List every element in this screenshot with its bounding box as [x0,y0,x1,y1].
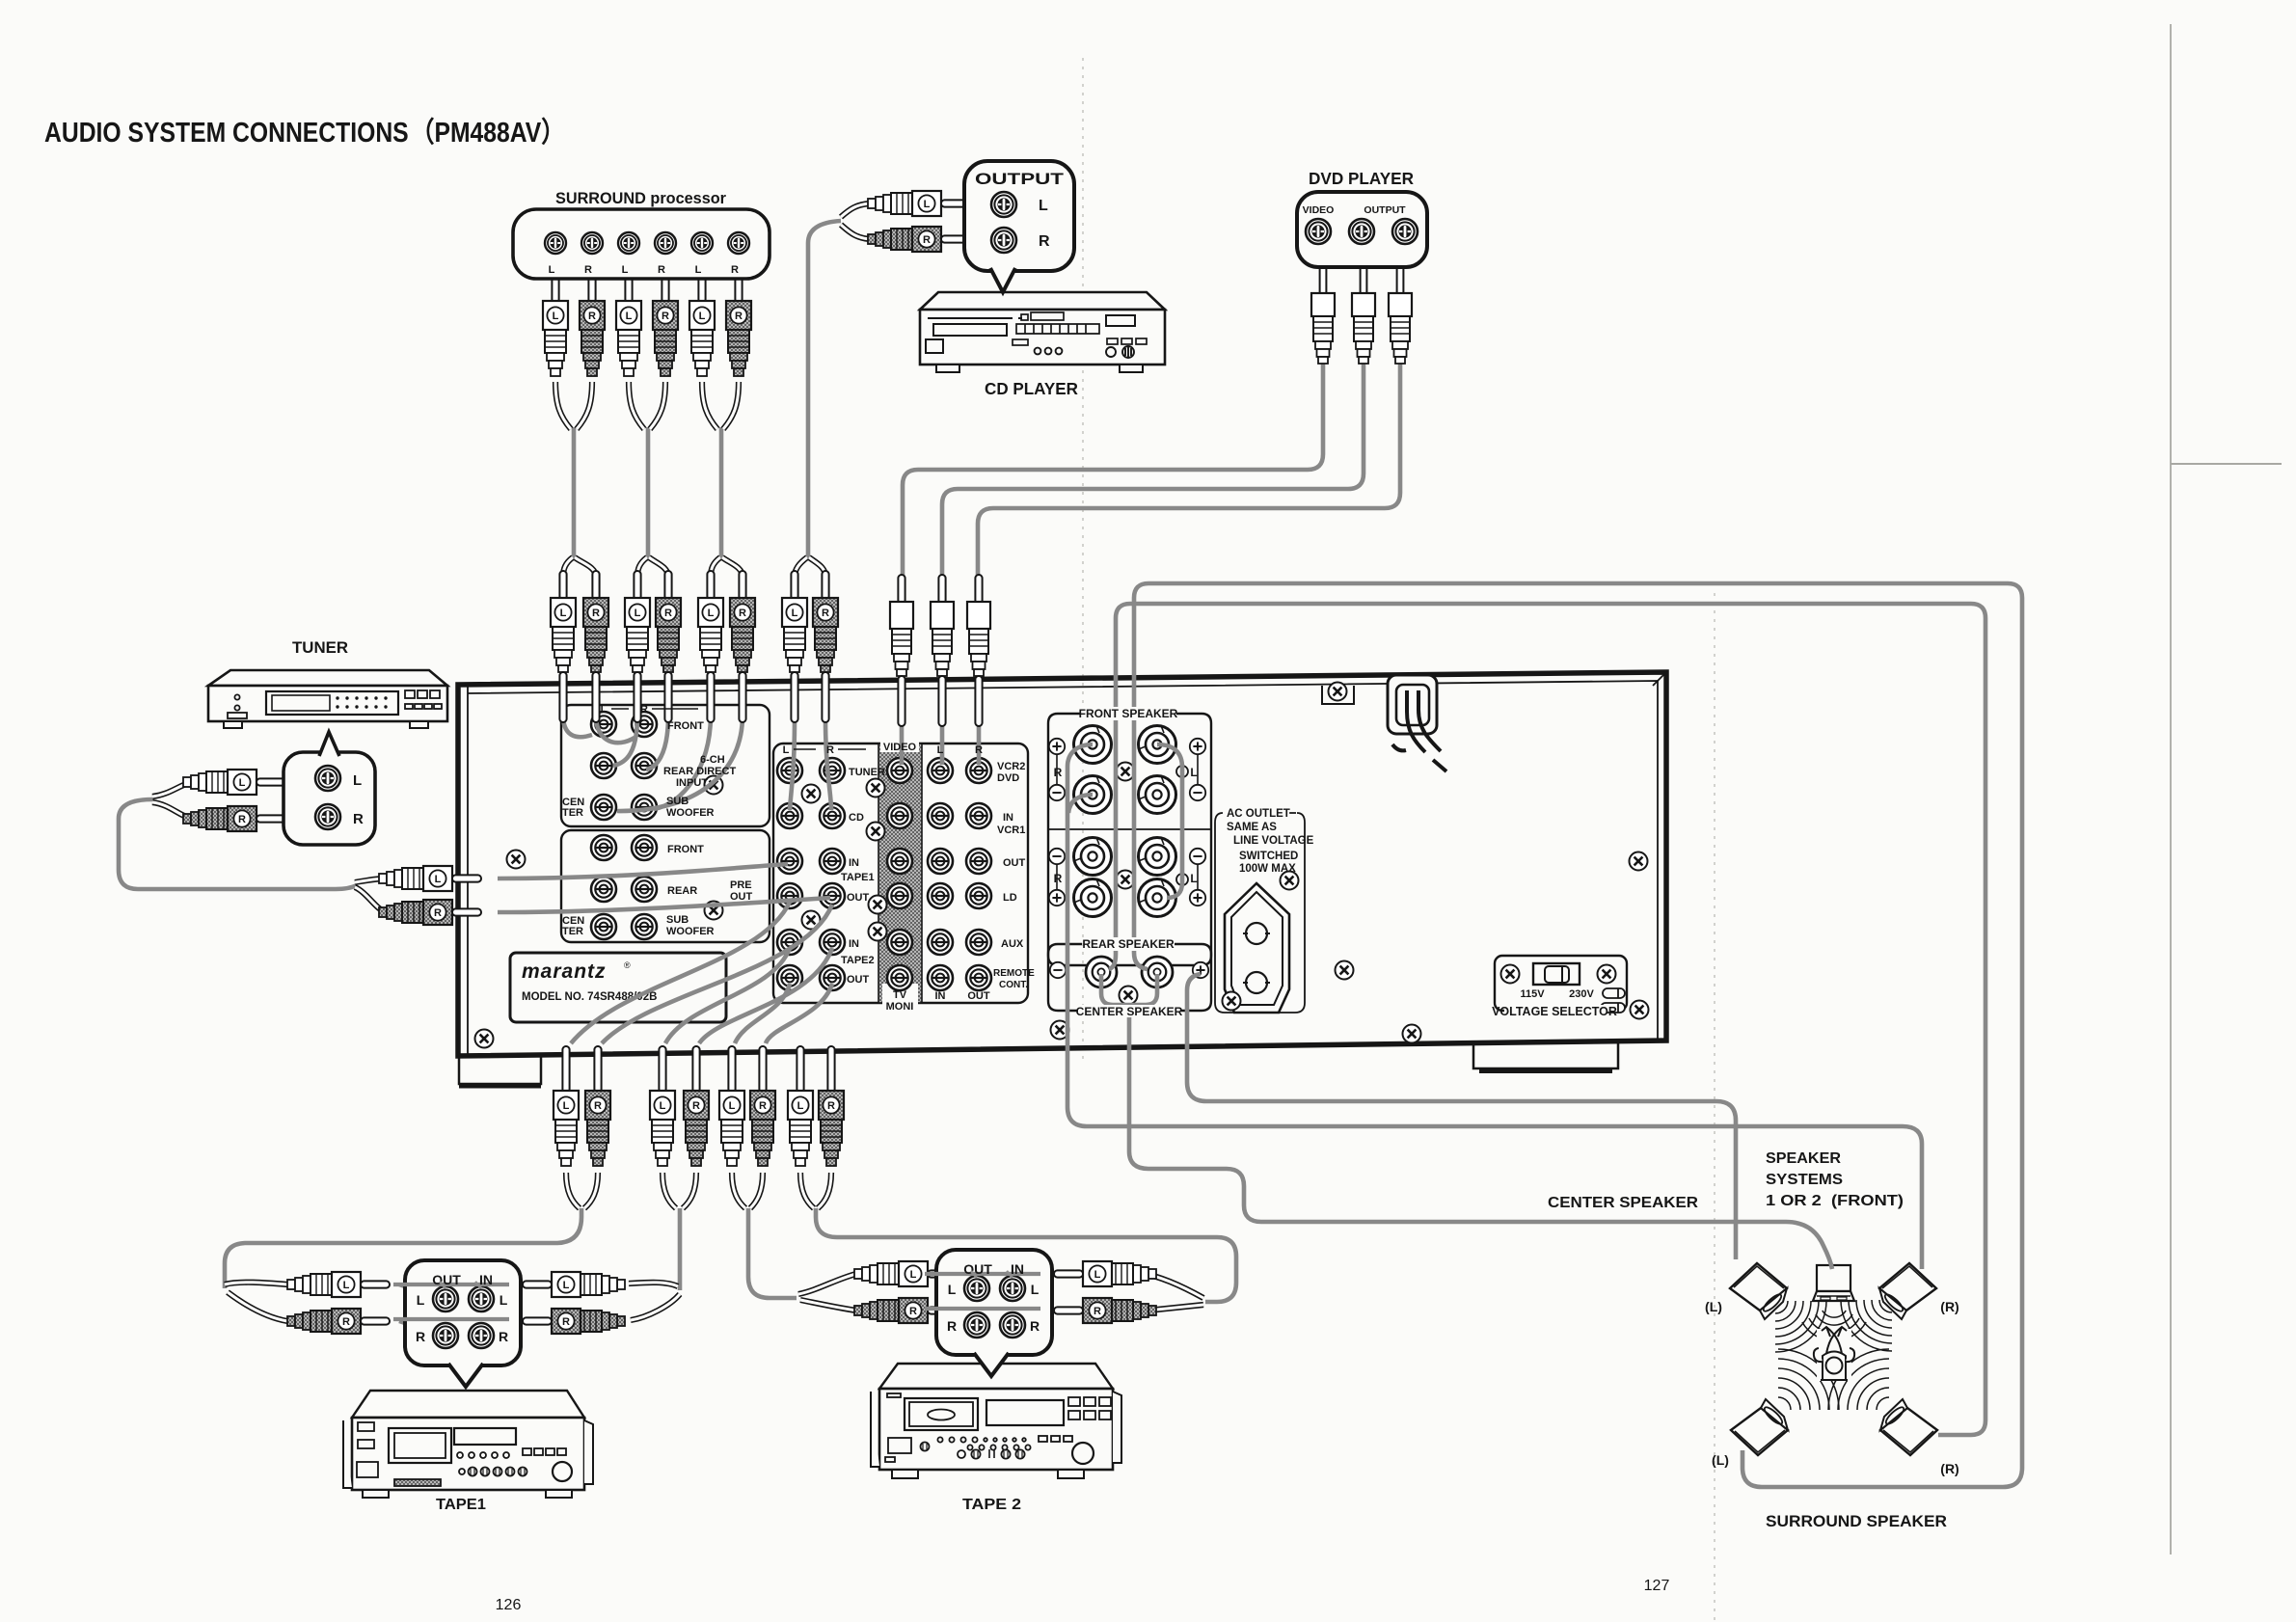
svg-text:L: L [708,608,715,619]
svg-text:L: L [549,264,555,276]
wire cd balloon pin L [970,202,992,206]
svg-text:R: R [759,1100,767,1112]
tape2 balloon labels [947,1261,1040,1334]
6ch input plugs above receiver [551,571,576,722]
svg-text:SURROUND SPEAKER: SURROUND SPEAKER [1766,1513,1947,1530]
svg-text:TAPE1: TAPE1 [841,872,875,883]
audio jacks TAPE1 OUT row [777,883,802,908]
svg-text:OUT: OUT [963,1261,992,1277]
svg-text:L: L [626,311,633,322]
svg-text:L: L [783,744,790,756]
wire 6ch rear L [613,716,637,766]
svg-text:marantz: marantz [522,960,607,983]
tape2 balloon [936,1250,1052,1376]
video audio L column jacks [928,758,953,783]
audio input jack block [773,743,1028,1003]
svg-text:L: L [792,608,798,619]
svg-text:L: L [343,1280,350,1291]
svg-text:R: R [827,1100,835,1112]
wire front speaker riser inner to surround R speaker [1109,604,1985,1435]
wire pairD below receiver to TAPE2 right [816,1208,1236,1302]
svg-text:6-CH: 6-CH [700,754,725,766]
svg-text:R: R [562,1316,570,1328]
svg-text:L: L [239,777,246,789]
svg-text:127: 127 [1644,1578,1670,1594]
video audio R column jacks [966,758,991,783]
svg-text:R: R [731,264,739,276]
wire center speaker run [1129,1007,1832,1269]
svg-text:L: L [500,1292,508,1308]
svg-text:OUT: OUT [847,892,870,904]
svg-text:R: R [584,264,592,276]
panel screws [507,851,526,869]
svg-text:R: R [909,1306,917,1317]
svg-text:WOOFER: WOOFER [666,807,715,819]
wire surround pair1 trunk [572,427,577,559]
svg-text:CD PLAYER: CD PLAYER [985,379,1078,398]
svg-text:R: R [434,907,442,919]
AC outlet socket [1225,883,1289,1013]
tape2 deck out plugs [854,1261,957,1286]
svg-text:R: R [664,608,672,619]
wire DVD R pin [977,716,982,765]
voltage selector box [1495,956,1627,1011]
sound wave arcs center channel [1802,1311,1866,1340]
svg-text:OUT: OUT [1003,857,1026,869]
svg-text:L: L [417,1292,425,1308]
svg-text:L: L [910,1269,917,1281]
svg-text:(R): (R) [1940,1461,1958,1476]
polarity marks rear speaker [1050,962,1066,978]
wire hook terminal minus [1068,795,1093,813]
svg-text:L: L [797,1100,804,1112]
wire tape1 balloon pin L out [399,1284,437,1297]
tape plugs below receiver [554,1046,579,1166]
svg-text:115V: 115V [1520,988,1545,1000]
tape1 jack pointer ticks [440,1282,481,1288]
panel 6ch labels [562,704,753,937]
wire 6ch front L [563,716,592,737]
tape1 balloon [405,1260,521,1387]
TAPE1 front details [357,1422,572,1486]
svg-text:LD: LD [1003,892,1017,904]
svg-text:INPUT: INPUT [676,777,708,789]
svg-text:L: L [601,704,608,716]
svg-text:R: R [353,811,364,827]
svg-text:®: ® [624,960,631,970]
wire tuner L into panel [498,864,788,879]
svg-text:REAR: REAR [667,885,697,897]
svg-text:CD: CD [849,812,864,824]
svg-text:L: L [695,264,702,276]
tape2 balloon jacks [964,1276,989,1301]
svg-text:IN: IN [849,938,859,950]
scan artifact vertical line right [2170,24,2172,1554]
wire DVD audio R [978,361,1400,579]
svg-text:VIDEO: VIDEO [1303,204,1335,216]
svg-text:VCR2: VCR2 [997,761,1025,772]
surround processor jack box [513,209,770,279]
svg-text:SYSTEMS: SYSTEMS [1766,1172,1843,1188]
svg-text:FRONT: FRONT [667,844,704,855]
wire center speaker U jumper [1101,974,1157,1005]
sound wave arcs surround right [1828,1349,1889,1410]
svg-text:R: R [1054,766,1063,779]
wire tape pair D inside panel [800,984,802,1043]
audio jacks TUNER row [777,758,802,783]
tuner output plugs [183,770,285,795]
wire 6ch front R [596,716,635,743]
svg-text:OUT: OUT [847,974,870,986]
svg-text:(L): (L) [1712,1452,1729,1468]
wire tape2 balloon pin L out [966,1274,970,1286]
wire tape2 balloon pin L in [1018,1274,1039,1286]
svg-text:L: L [1039,198,1048,214]
wire DVD L pin [940,716,945,765]
CD output balloon [964,161,1074,292]
tuner display dots [336,696,387,708]
svg-text:AUDIO SYSTEM CONNECTIONS （PM48: AUDIO SYSTEM CONNECTIONS （PM488AV） [44,117,565,149]
svg-text:R: R [1039,233,1050,250]
audio jacks TAPE2 IN row [777,930,802,955]
svg-text:L: L [1031,1282,1040,1297]
wire tape2 balloon pin R out [966,1311,970,1323]
svg-text:R: R [739,608,746,619]
svg-text:MONI: MONI [886,1001,914,1013]
CD player knobs [1035,346,1134,358]
svg-text:PRE: PRE [730,879,752,891]
svg-text:CENTER SPEAKER: CENTER SPEAKER [1548,1195,1698,1211]
wire tuner R into panel [498,898,830,912]
wire tuner balloon pin L [281,779,316,784]
CD player device [920,292,1165,372]
surround left speaker cube [1731,1399,1788,1455]
svg-text:L: L [729,1100,736,1112]
audio jacks TAPE1 IN row [777,849,802,874]
marantz model label [510,953,726,1022]
DVD plugs above receiver [890,575,913,726]
wire tape1 balloon pin L in [488,1284,508,1297]
wire 6ch center [617,716,743,811]
svg-text:IN: IN [1011,1261,1024,1277]
plug letters [238,199,1101,1328]
6-ch direct input jack block [561,705,770,826]
video column jacks [887,758,912,783]
rear speaker block [1048,944,1211,1011]
svg-text:FRONT SPEAKER: FRONT SPEAKER [1079,707,1178,720]
wire rear speaker to front L speaker [1187,974,1736,1259]
svg-text:OUT: OUT [967,990,990,1002]
svg-text:AC OUTLET: AC OUTLET [1227,808,1290,820]
surround right speaker cube [1880,1399,1937,1455]
svg-text:R: R [662,311,669,322]
surround processor jacks [545,232,566,254]
screw tab on top edge [1322,683,1354,705]
TAPE1 deck device [343,1391,593,1498]
svg-text:R: R [1094,1306,1101,1317]
svg-text:TER: TER [562,807,583,819]
wire surround pair3 trunk [719,427,724,559]
svg-text:(R): (R) [1940,1299,1958,1314]
wire pairC below receiver to TAPE2 left [748,1208,797,1298]
svg-text:R: R [826,744,834,756]
voltage selector switch [1533,963,1580,985]
svg-text:L: L [948,1282,957,1297]
svg-text:L: L [937,744,944,756]
svg-text:R: R [1030,1318,1040,1334]
wire tape1 balloon pin R out [399,1321,437,1334]
scan artifact tick [2171,463,2282,465]
wire CD output trunk [808,221,841,559]
svg-text:AUX: AUX [1001,938,1024,950]
tuner device [208,670,447,728]
wire tape2 balloon pin R in [1018,1311,1039,1323]
svg-text:OUT: OUT [730,891,753,903]
wire cd balloon pin R [973,237,992,242]
tuner plugs into receiver [379,866,481,891]
tuner front details [228,690,442,718]
wire tuner balloon pin R [281,816,316,821]
svg-text:R: R [735,311,743,322]
tape1 balloon labels [416,1272,508,1344]
svg-text:L: L [1190,766,1197,779]
tape2 deck in plugs [1054,1261,1156,1286]
svg-text:OUTPUT: OUTPUT [975,171,1064,188]
wire tape1 balloon pin R in [488,1321,508,1334]
wire tape2 in trunk [665,948,790,1043]
svg-text:VOLTAGE SELECTOR: VOLTAGE SELECTOR [1492,1005,1617,1018]
wire 6ch rear R [646,716,668,770]
svg-text:SWITCHED: SWITCHED [1239,851,1298,862]
audio jacks CD row [777,803,802,828]
speaker terminal block labels [1054,707,1198,1018]
svg-text:R: R [1054,872,1063,885]
svg-text:SURROUND processor: SURROUND processor [555,190,727,207]
front speaker block [1048,714,1211,965]
wire bands through tape2 balloon [925,1274,1040,1309]
svg-text:R: R [416,1329,425,1344]
wire tape2 out trunk [735,984,790,1043]
CD input plugs above receiver [782,571,807,722]
svg-text:L: L [699,311,706,322]
voltage selector screws [1501,965,1520,984]
front speaker terminals system 2 [1074,838,1112,876]
pre out jack block [561,830,770,942]
svg-text:TAPE1: TAPE1 [436,1497,486,1513]
svg-text:R: R [692,1100,700,1112]
svg-text:CENTER SPEAKER: CENTER SPEAKER [1076,1005,1183,1018]
audio jacks TAPE2 OUT row [777,965,802,990]
CD player front details [928,312,1147,345]
receiver rear panel outline [458,672,1666,1056]
video jack strip (shaded) [878,743,922,1003]
svg-text:CONT.: CONT. [999,980,1028,990]
DVD jacks [1306,219,1331,244]
TAPE2 deck device [871,1364,1121,1478]
svg-text:OUT: OUT [432,1272,461,1287]
svg-text:L: L [1190,872,1197,885]
wire rear speaker to front R speaker [1067,744,1922,1269]
svg-text:126: 126 [496,1597,522,1613]
CD output plugs [868,191,970,216]
DVD plugs under DVD player [1311,251,1335,364]
wire surround pair2 trunk [646,427,651,559]
svg-text:230V: 230V [1569,988,1594,1000]
svg-text:L: L [353,772,362,789]
tape1 deck in plugs [523,1272,625,1297]
svg-text:SAME AS: SAME AS [1227,822,1277,833]
speaker wire tabs [1601,988,1625,1013]
svg-text:LINE VOLTAGE: LINE VOLTAGE [1233,835,1314,847]
svg-text:R: R [499,1329,508,1344]
pre out jacks row CENTER/SUB [591,914,616,939]
front speaker terminals system 1 [1074,726,1112,764]
voltage selector labels [1492,988,1617,1018]
wire DVD video [903,361,1323,579]
svg-text:L: L [435,874,442,885]
svg-text:R: R [640,704,648,716]
svg-text:(L): (L) [1705,1299,1722,1314]
svg-text:DVD: DVD [997,772,1019,784]
TAPE2 front details [885,1393,1111,1464]
listener figure [1814,1327,1854,1381]
wire pairA below receiver to TAPE1 left [225,1208,581,1288]
svg-text:TAPE 2: TAPE 2 [962,1497,1021,1513]
AC power cord [1392,690,1446,771]
svg-text:TAPE2: TAPE2 [841,955,875,966]
svg-text:R: R [923,234,931,246]
small holes front speaker block [1176,766,1188,777]
svg-text:L: L [563,1100,570,1112]
front right speaker cube [1879,1263,1936,1319]
svg-text:SUB: SUB [666,914,689,926]
svg-text:R: R [975,744,983,756]
wire bands through tape1 balloon [393,1284,509,1319]
AC outlet dashed box [1215,813,1305,1013]
center speaker box [1813,1265,1854,1301]
front left speaker cube [1730,1263,1787,1319]
white cable pair tubes [152,203,1203,1321]
wire front speaker riser outer to surround L speaker [1134,583,2022,1487]
wire tuner trunk [119,799,357,889]
wire CD R into jack [825,718,831,810]
wire 6ch sub [654,716,711,809]
receiver left foot [459,1055,541,1086]
svg-text:L: L [622,264,629,276]
wire CD L into jack [790,718,795,810]
scan fold line right page [1714,593,1715,1622]
svg-text:IN: IN [1003,812,1013,824]
svg-text:R: R [822,608,829,619]
svg-text:SPEAKER: SPEAKER [1766,1150,1841,1167]
svg-text:IN: IN [935,990,946,1002]
wire DVD audio L [942,361,1364,579]
svg-text:REAR DIRECT: REAR DIRECT [663,766,736,777]
svg-text:R: R [594,1100,602,1112]
sound wave arcs surround left [1778,1349,1839,1410]
svg-text:R: R [238,814,246,825]
panel audio block labels [783,742,1035,1013]
svg-text:100W MAX: 100W MAX [1239,863,1296,875]
svg-text:L: L [1094,1269,1101,1281]
svg-text:REMOTE: REMOTE [993,968,1035,979]
polarity marks front speaker [1049,739,1065,754]
svg-text:VCR1: VCR1 [997,825,1025,836]
wire pairB below receiver to TAPE1 right [678,1208,683,1290]
svg-text:L: L [924,199,931,210]
svg-text:R: R [588,311,596,322]
tape2 jack pointer ticks [971,1271,1013,1278]
sound wave arcs front left [1775,1301,1826,1352]
svg-text:TUNER: TUNER [292,639,348,657]
svg-text:TER: TER [562,926,583,937]
tape1 deck out plugs [287,1272,390,1297]
scan fold line center-left page [1082,58,1084,1061]
svg-text:R: R [592,608,600,619]
svg-text:R: R [342,1316,350,1328]
svg-text:WOOFER: WOOFER [666,926,715,937]
6-ch block jacks row CENTER/SUB [591,795,616,820]
6-ch block jacks row FRONT [591,712,616,737]
surround processor plugs L/R x3 [543,257,568,376]
svg-text:R: R [947,1318,957,1334]
6-ch block jacks row REAR [591,753,616,778]
svg-text:SUB: SUB [666,796,689,807]
svg-text:L: L [660,1100,666,1112]
svg-text:FRONT: FRONT [667,720,704,732]
svg-text:IN: IN [479,1272,493,1287]
svg-text:TV: TV [893,989,907,1001]
CD output jacks [991,192,1016,217]
AC outlet labels [1227,808,1314,875]
pre out jacks row REAR [591,877,616,902]
svg-text:L: L [563,1280,570,1291]
svg-text:L: L [553,311,559,322]
svg-text:L: L [635,608,641,619]
svg-text:TUNER: TUNER [849,767,885,778]
surround jack labels [549,264,739,276]
tape1 balloon jacks [433,1286,458,1311]
svg-text:1 OR 2 (FRONT): 1 OR 2 (FRONT) [1766,1193,1904,1209]
rear speaker terminals [1086,957,1117,987]
svg-text:L: L [560,608,567,619]
svg-text:R: R [658,264,665,276]
DVD player jack box [1297,192,1427,267]
sound wave arcs front right [1841,1300,1892,1351]
wire front speaker jumper right [1157,744,1182,898]
receiver right foot [1473,1041,1618,1071]
tuner output balloon [284,732,375,845]
tuner balloon jacks [315,766,340,791]
svg-text:DVD PLAYER: DVD PLAYER [1309,169,1414,188]
svg-text:VIDEO: VIDEO [883,742,917,753]
svg-text:IN: IN [849,857,859,869]
pre out jacks row FRONT [591,835,616,860]
svg-text:REAR SPEAKER: REAR SPEAKER [1082,937,1175,951]
wire DVD video pin [900,716,905,765]
AC cord clamp bracket [1388,675,1437,734]
wire tape1 out trunk [571,902,790,1043]
svg-text:OUTPUT: OUTPUT [1364,204,1406,216]
